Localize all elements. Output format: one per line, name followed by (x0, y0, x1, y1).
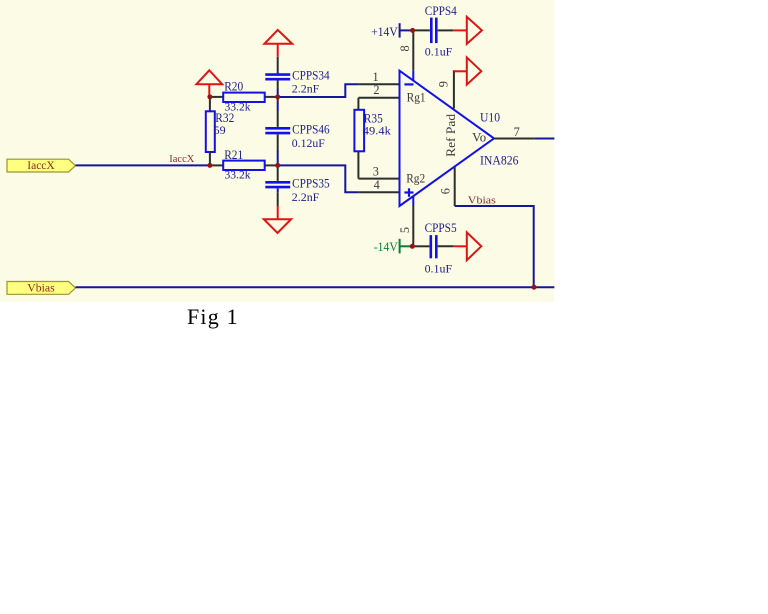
pin 8 stub (412, 71, 414, 81)
svg-text:CPPS5: CPPS5 (425, 221, 457, 235)
wire junction2 to op-amp pin4 (278, 165, 359, 192)
svg-text:-14V: -14V (374, 240, 398, 254)
op-amp pin 1 line (358, 83, 400, 85)
power port +14V (371, 23, 412, 39)
pin 5 stub (412, 196, 414, 206)
capacitor CPPS4 (414, 4, 458, 58)
power symbol above CPPS34 (264, 30, 292, 57)
svg-text:R35: R35 (364, 111, 383, 125)
power symbol right of CPPS5 (454, 232, 482, 260)
svg-text:2: 2 (373, 83, 379, 97)
capacitor CPPS5 (414, 221, 457, 275)
junction dot -14V (410, 244, 415, 249)
svg-text:8: 8 (398, 45, 412, 51)
svg-text:CPPS34: CPPS34 (292, 69, 330, 83)
junction dot Vbias bus (532, 285, 537, 290)
junction dot R32 bottom (207, 163, 212, 168)
port IaccX (7, 159, 76, 172)
pin 5 wire (412, 206, 414, 247)
svg-text:Rg1: Rg1 (407, 90, 426, 104)
svg-text:Ref Pad: Ref Pad (444, 113, 458, 157)
capacitor CPPS46 (265, 111, 329, 165)
port Vbias (7, 282, 76, 295)
junction dot cap column row1 (275, 94, 280, 99)
pin 7 output (494, 138, 535, 140)
wire IaccX port to junction (76, 164, 210, 166)
svg-text:IaccX: IaccX (169, 153, 194, 165)
capacitor CPPS35 (265, 165, 329, 206)
power symbol right of CPPS4 (453, 17, 482, 44)
svg-text:Vbias: Vbias (468, 195, 496, 207)
svg-text:33.2k: 33.2k (225, 169, 251, 181)
svg-text:Vo: Vo (472, 131, 486, 145)
junction dot +14V (410, 28, 415, 33)
wire column junction1 to CPPS46 (277, 97, 279, 111)
svg-text:0.1uF: 0.1uF (425, 263, 453, 275)
svg-text:3: 3 (373, 165, 379, 179)
op-amp pin 2 line (358, 97, 400, 99)
op-amp plus sign (404, 188, 413, 197)
op-amp pin 4 line (358, 191, 400, 193)
svg-text:5: 5 (398, 227, 412, 233)
power symbol pin 9 (454, 57, 481, 84)
svg-text:Vbias: Vbias (27, 283, 55, 295)
wire Vbias bus (76, 286, 555, 288)
pin 6 wire (454, 167, 456, 206)
svg-text:Fig 1: Fig 1 (187, 304, 239, 329)
resistor R21 (210, 148, 278, 181)
svg-text:R21: R21 (224, 148, 243, 162)
power symbol below CPPS35 (264, 206, 291, 233)
power port -14V (374, 239, 413, 254)
resistor R20 (210, 80, 278, 114)
op-amp minus sign (404, 83, 413, 85)
resistor R35 (354, 98, 391, 179)
svg-text:CPPS46: CPPS46 (292, 122, 330, 136)
svg-text:Rg2: Rg2 (406, 172, 425, 186)
wire Vbias net from pin 6 (455, 206, 534, 287)
resistor R32 (206, 97, 235, 165)
pin 9 wire (453, 70, 455, 108)
svg-text:CPPS4: CPPS4 (425, 4, 458, 18)
svg-text:49.4k: 49.4k (363, 126, 391, 138)
wire Vo output (535, 138, 555, 140)
svg-text:0.1uF: 0.1uF (425, 46, 453, 58)
op-amp pin 3 line (358, 178, 400, 180)
wire junction1 to op-amp pin1 (278, 84, 359, 97)
junction dot cap column row2 (275, 163, 280, 168)
svg-text:INA826: INA826 (480, 154, 519, 168)
pin 8 wire (412, 30, 414, 70)
svg-text:6: 6 (439, 188, 453, 194)
svg-text:0.12uF: 0.12uF (292, 138, 325, 150)
svg-text:1: 1 (373, 70, 379, 84)
svg-text:2.2nF: 2.2nF (292, 192, 320, 204)
svg-text:R20: R20 (224, 80, 243, 94)
svg-text:4: 4 (374, 178, 380, 192)
power symbol above R32 (196, 70, 222, 97)
svg-text:U10: U10 (480, 110, 500, 124)
svg-text:+14V: +14V (371, 25, 398, 39)
svg-text:59: 59 (214, 125, 226, 137)
svg-text:9: 9 (437, 81, 451, 87)
capacitor CPPS34 (265, 57, 330, 97)
svg-text:33.2k: 33.2k (225, 101, 251, 113)
junction dot R32 top (207, 94, 212, 99)
svg-text:CPPS35: CPPS35 (292, 176, 330, 190)
svg-text:7: 7 (514, 125, 520, 139)
svg-text:IaccX: IaccX (27, 160, 55, 172)
svg-text:2.2nF: 2.2nF (292, 84, 320, 96)
op-amp U1 triangle INA826 (400, 71, 495, 206)
